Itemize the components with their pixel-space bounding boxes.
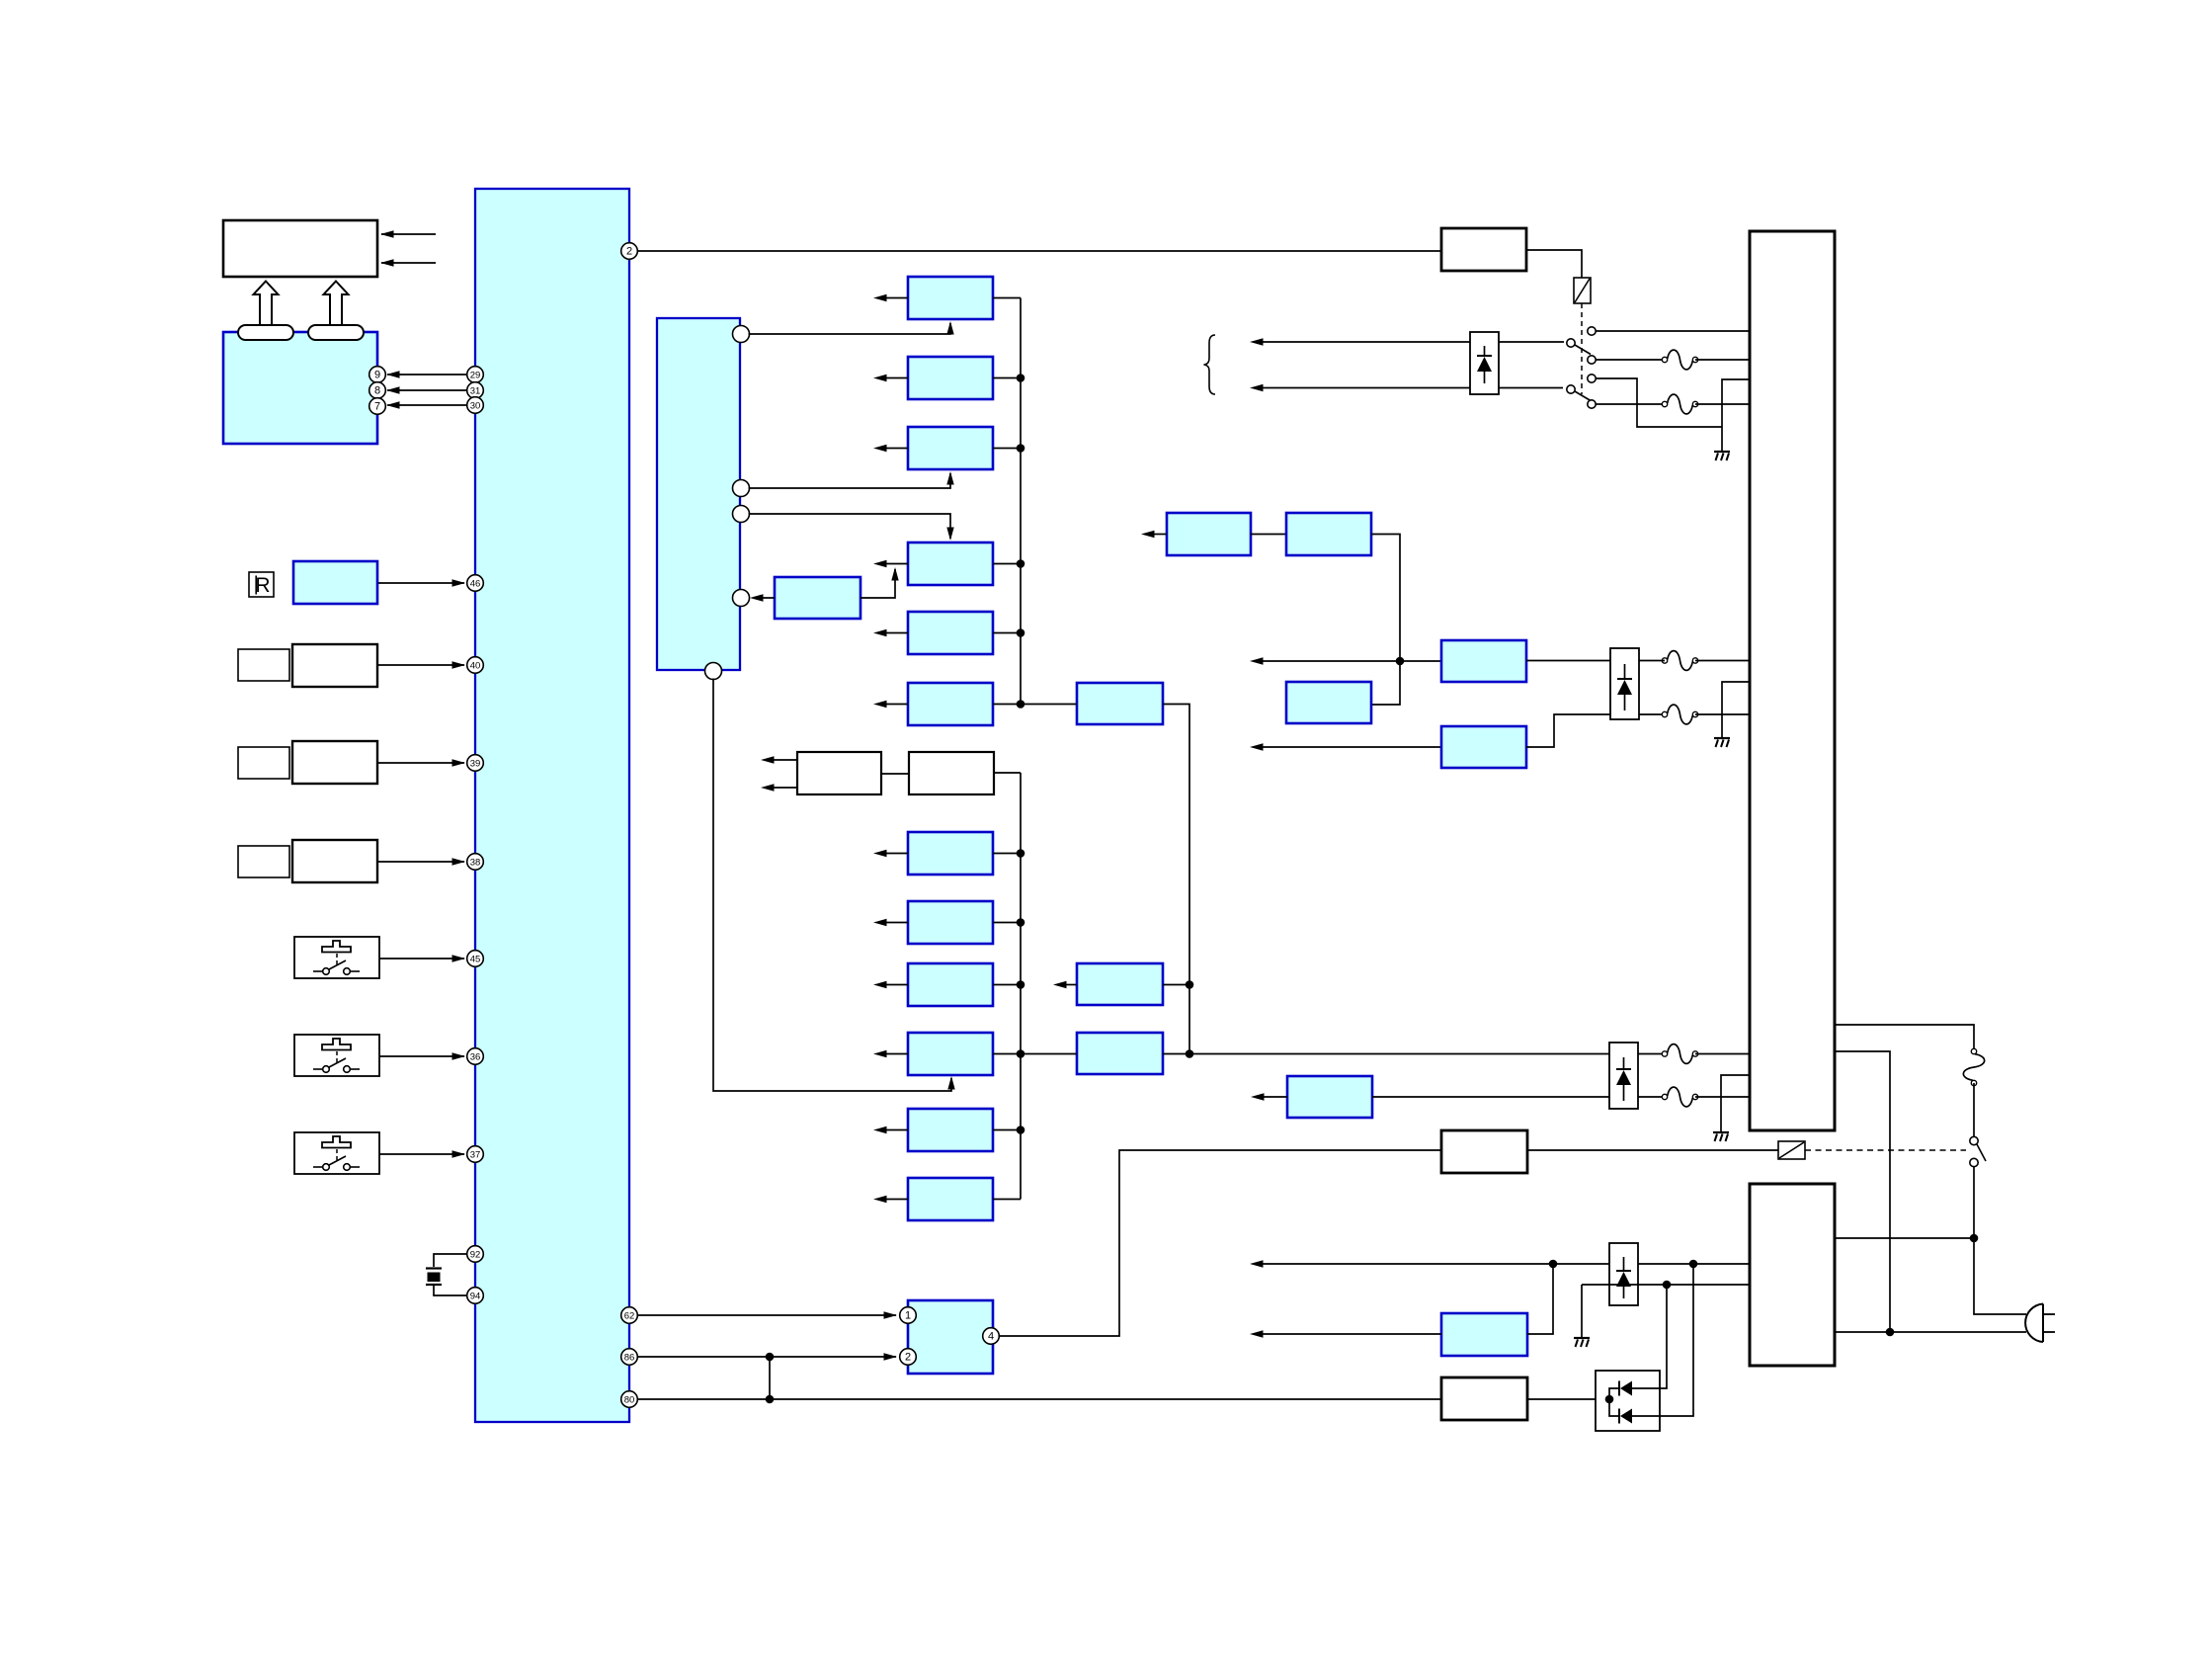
block: white box pair right (amp): [909, 752, 994, 794]
svg-text:1: 1: [905, 1309, 911, 1321]
pin 80: [621, 1391, 638, 1408]
arrow out of power out 6: [873, 701, 908, 708]
wire 86 to 80 link: [769, 1357, 771, 1399]
wire to pin36: [379, 1052, 465, 1059]
block: B4 cyan box: [1287, 1076, 1372, 1118]
svg-text:4: 4: [988, 1330, 994, 1342]
block: R pair left cyan: [1167, 513, 1251, 555]
wire reset output: [860, 567, 899, 598]
wire junction to plug top: [1974, 1238, 2026, 1314]
pin 4: [983, 1328, 1000, 1345]
wire power out 2 to bus: [993, 377, 1021, 379]
pin 31: [467, 382, 484, 399]
diode D1: [1617, 664, 1632, 710]
junction at bus y382.5: [1017, 374, 1025, 382]
wire pin4 to relay box: [999, 1150, 1441, 1336]
block: regulator power out 8 (cyan): [908, 901, 993, 944]
block: R2b cyan box: [1441, 726, 1526, 768]
wire D1 out bottom to F4: [1639, 713, 1665, 715]
ground C: [1713, 1132, 1729, 1141]
wire SW2 bottom to fuse F2: [1597, 403, 1666, 405]
wire rail to R2a: [1250, 657, 1441, 664]
svg-text:30: 30: [470, 400, 481, 411]
AC plug P1: [2025, 1304, 2055, 1343]
arrow B4 out: [1251, 1093, 1287, 1100]
IC U2 sub block (tall cyan): [657, 318, 740, 670]
block: small white box 1: [238, 649, 289, 681]
switch SW2 contact top: [1588, 375, 1596, 382]
block: regulator power out 6 (cyan): [908, 683, 993, 725]
switch S1 box: [294, 937, 379, 978]
wire F2 to transformer: [1695, 403, 1750, 405]
switch SW1 pole circle: [1567, 339, 1575, 347]
arrow audio out 2: [761, 784, 797, 791]
transformer T1 (tall white box): [1750, 231, 1835, 1130]
wire power out 6 to bus: [993, 704, 1021, 706]
wire R2b to rectifier D1: [1526, 714, 1610, 747]
wire port E to box11: [713, 679, 955, 1092]
junction at bus y933.5: [1017, 918, 1025, 927]
IR receiver symbol: [249, 572, 274, 597]
arrow B2 out: [1053, 981, 1077, 988]
wire degauss to relay: [1526, 250, 1582, 278]
relay RY2: [1778, 1141, 1805, 1159]
block: regulator power out 1 (cyan): [908, 277, 993, 319]
switch S2 box: [294, 1035, 379, 1076]
block: jack white box 2: [292, 741, 377, 784]
block: power supply white box: [1750, 1184, 1835, 1366]
arrow out of power out 2: [873, 375, 908, 381]
wire ground branch to PSU: [1582, 1284, 1750, 1286]
junction at bus y570.5: [1017, 559, 1025, 568]
junction plug line: [1886, 1328, 1895, 1337]
junction bus-B1: [1017, 700, 1025, 709]
wire box12 to bus corner: [993, 1199, 1021, 1201]
svg-text:46: 46: [470, 578, 481, 589]
block: regulator power out 12 (cyan): [908, 1178, 993, 1220]
arrow out of power out 7: [873, 850, 908, 857]
svg-text:2: 2: [626, 245, 632, 257]
port circle A: [733, 326, 750, 343]
svg-text:40: 40: [470, 660, 481, 671]
block: display/jack white box: [223, 220, 377, 277]
pin 8: [369, 382, 386, 399]
wire power out 7 to bus: [993, 853, 1021, 855]
wire PSU out2 to plug: [1835, 1331, 2026, 1333]
wire box1 to bus corner: [993, 297, 1021, 299]
port circle D: [733, 590, 750, 607]
block: B3 cyan box: [1077, 1033, 1163, 1074]
wire transformer to plug line: [1835, 1051, 1890, 1332]
block: small white box 3: [238, 846, 289, 877]
relay RY1 (thermal): [1574, 278, 1591, 303]
wire pin62 to pin1: [638, 1311, 898, 1318]
wire into display box lower: [380, 259, 436, 266]
diode D4: [1477, 346, 1492, 383]
svg-text:7: 7: [374, 400, 380, 412]
pin 2 standby: [900, 1349, 917, 1366]
wire D6 up: [1632, 1264, 1693, 1416]
arrow R pair out: [1141, 531, 1167, 538]
wire IR to pin46: [378, 579, 465, 586]
arrow out of power out 9: [873, 981, 908, 988]
wire relay drive to relay RY2: [1527, 1149, 1778, 1151]
wire port C to box4: [749, 514, 954, 541]
block: reset cyan box: [775, 577, 860, 619]
switch SW1 contact top: [1588, 327, 1596, 335]
bus vertical segment A: [1020, 298, 1022, 705]
wire F3 to transformer: [1695, 660, 1750, 662]
wire F6 to transformer: [1695, 1096, 1750, 1098]
block: regulator power out 7 (cyan): [908, 832, 993, 875]
wire power out 11 to bus: [993, 1129, 1021, 1131]
wire B2 to vertical: [1163, 984, 1189, 986]
svg-text:36: 36: [470, 1051, 481, 1062]
power switch SW3 blade: [1977, 1144, 1986, 1161]
svg-text:37: 37: [470, 1149, 481, 1160]
fuse F6: [1662, 1087, 1697, 1107]
svg-text:8: 8: [374, 384, 380, 396]
port circle E (bottom): [705, 663, 722, 680]
rectifier D4 box: [1470, 332, 1499, 394]
block: regulator power out 11 (cyan): [908, 1109, 993, 1151]
junction D3 lower: [1663, 1281, 1672, 1290]
wire SW2 top to ground line: [1597, 378, 1723, 427]
diode pack box: [1596, 1371, 1660, 1431]
arrow out of power out 8: [873, 919, 908, 926]
wire to pin37: [379, 1150, 465, 1157]
wire port A to box1: [749, 321, 954, 335]
wire AC select lower: [1250, 384, 1563, 391]
wire power out 5 to bus: [993, 632, 1021, 634]
ground B: [1714, 738, 1730, 747]
wire power out 4 to bus: [993, 563, 1021, 565]
block: B1 cyan box: [1077, 683, 1163, 724]
junction at bus y640.5: [1017, 628, 1025, 637]
wire B1 to vertical: [1163, 705, 1189, 1054]
wire PSU out1: [1835, 1237, 1974, 1239]
pin 40: [467, 657, 484, 674]
ground stub B: [1722, 682, 1750, 737]
pin 1: [900, 1307, 917, 1324]
wire power out 10 to bus: [993, 1053, 1021, 1055]
switch S3 box: [294, 1132, 379, 1174]
arrow out of power out 5: [873, 629, 908, 636]
ground A: [1714, 452, 1730, 460]
fuse F3: [1662, 651, 1697, 671]
wire port B to box3: [749, 471, 954, 488]
wire pin29 to pin9: [386, 371, 467, 377]
port circle C: [733, 506, 750, 523]
svg-text:94: 94: [470, 1291, 481, 1301]
pin 94: [467, 1288, 484, 1304]
rectifier D3 box: [1609, 1243, 1638, 1305]
svg-text:38: 38: [470, 857, 481, 868]
wire AC select upper: [1250, 338, 1564, 345]
wire standby feedback up: [1527, 1264, 1553, 1334]
junction at bus y1143.5: [1017, 1126, 1025, 1134]
block: jack white box 3: [292, 840, 377, 882]
curly brace: [1204, 335, 1216, 394]
wire to ground D: [1581, 1285, 1583, 1337]
wire B3 to rectifier D2: [1163, 1053, 1609, 1055]
block: degauss posistor white box: [1441, 228, 1526, 271]
fuse F7 vertical: [1963, 1048, 1984, 1085]
wire pin2 to degauss box: [638, 250, 1442, 252]
switch SW1 blade: [1575, 345, 1591, 355]
block: regulator power out 5 (cyan): [908, 612, 993, 654]
block: line filter white box: [1441, 1377, 1527, 1420]
pin 7: [369, 398, 386, 415]
block: relay drive white box: [1441, 1130, 1527, 1173]
switch SW2 contact bottom: [1588, 400, 1596, 408]
wire to pin40: [378, 661, 465, 668]
junction standby rail: [1549, 1260, 1558, 1269]
wire D2 out top to F5: [1638, 1053, 1665, 1055]
wire reset to port D: [750, 594, 775, 601]
dashed relay RY2 link: [1805, 1149, 1966, 1151]
pin 62: [621, 1307, 638, 1324]
wire filter to diode pack: [1527, 1398, 1609, 1400]
wire transformer to vertical fuse: [1835, 1025, 1974, 1051]
block: L2 cyan box: [1286, 682, 1371, 723]
block: IR sensor cyan box: [293, 561, 377, 604]
wire power out 9 to bus: [993, 984, 1021, 986]
diode D5: [1619, 1381, 1632, 1396]
pin 39: [467, 755, 484, 772]
pin 46: [467, 575, 484, 592]
rectifier D1 box: [1610, 648, 1639, 719]
pin 9: [369, 367, 386, 383]
wire R pair link: [1251, 534, 1286, 536]
block: standby converter cyan box: [908, 1300, 993, 1374]
svg-text:29: 29: [470, 370, 481, 380]
wire R pair to junction: [1371, 535, 1400, 706]
block: regulator power out 4 (cyan): [908, 542, 993, 585]
ground stub A: [1722, 379, 1750, 451]
junction B3-vertical: [1186, 1049, 1194, 1058]
block: standby feedback cyan box: [1441, 1313, 1527, 1356]
junction bus-B3: [1017, 1049, 1025, 1058]
wire rail to R2b: [1250, 743, 1441, 750]
arrow standby feedback out: [1250, 1330, 1441, 1337]
block: jack white box 1: [292, 644, 377, 687]
block: key/LED cyan box: [223, 332, 377, 444]
fuse F4: [1662, 705, 1697, 724]
wire R2a to rectifier D1: [1526, 660, 1610, 662]
wire SW1 bottom to fuse F1: [1597, 359, 1666, 361]
junction D3 out: [1689, 1260, 1698, 1269]
power switch SW3 contact top: [1970, 1136, 1978, 1144]
pin 29: [467, 367, 484, 383]
switch SW2 blade: [1575, 391, 1591, 401]
wire to pin39: [378, 759, 465, 766]
rectifier D2 box: [1609, 1043, 1638, 1109]
wire rail through rectifier D3 to PSU: [1553, 1263, 1750, 1265]
svg-text:80: 80: [624, 1394, 635, 1405]
pin 36: [467, 1048, 484, 1065]
wire to diode D6: [1609, 1399, 1618, 1416]
pin 38: [467, 854, 484, 871]
switch SW2 pole circle: [1567, 385, 1575, 393]
wire crystal to pin94: [434, 1286, 467, 1295]
block arrow up left: [254, 282, 279, 326]
diode D6: [1619, 1409, 1632, 1424]
wire B4 to rectifier D2: [1372, 1096, 1609, 1098]
junction at bus y453.5: [1017, 444, 1025, 453]
svg-text:62: 62: [624, 1310, 635, 1321]
wire D1 out top to F3: [1639, 660, 1665, 662]
arrow out of power out 11: [873, 1127, 908, 1133]
diode D3: [1616, 1257, 1631, 1298]
junction PSU-switch: [1970, 1234, 1979, 1243]
junction B2-vertical: [1186, 980, 1194, 989]
bus vertical segment B: [1020, 773, 1022, 1200]
diode D2: [1616, 1057, 1631, 1101]
wire F1 to transformer: [1695, 359, 1750, 361]
wire to diode D5: [1609, 1388, 1618, 1399]
svg-text:45: 45: [470, 954, 481, 964]
junction 86-80: [766, 1353, 775, 1362]
svg-text:31: 31: [470, 385, 481, 396]
wire F4 to transformer: [1695, 713, 1750, 715]
power switch SW3 contact bottom: [1970, 1158, 1978, 1166]
wire to pin45: [379, 955, 465, 961]
junction at bus y863.5: [1017, 849, 1025, 858]
svg-text:9: 9: [374, 369, 380, 380]
block: regulator power out 9 (cyan): [908, 963, 993, 1006]
wire pin30 to pin7: [386, 401, 467, 408]
pin 37: [467, 1146, 484, 1163]
wire F5 to transformer: [1695, 1053, 1750, 1055]
port circle B: [733, 480, 750, 497]
block: regulator power out 3 (cyan): [908, 427, 993, 469]
svg-text:92: 92: [470, 1249, 481, 1260]
block: B2 cyan box: [1077, 963, 1163, 1005]
arrow out of power out 4: [873, 560, 908, 567]
arrow out of power out 10: [873, 1050, 908, 1057]
connector tab left: [238, 325, 293, 340]
wire bus to B3: [1021, 1053, 1077, 1055]
arrow out of power out 12: [873, 1196, 908, 1203]
wire SW3 to junction: [1973, 1167, 1975, 1238]
wire pin92 to crystal: [434, 1254, 467, 1267]
pin 86: [621, 1349, 638, 1366]
block arrow up right: [324, 282, 349, 326]
svg-text:2: 2: [905, 1351, 911, 1363]
svg-text:39: 39: [470, 758, 481, 769]
svg-text:R: R: [255, 574, 270, 597]
wire D5 up: [1632, 1285, 1667, 1388]
block: R pair right cyan: [1286, 513, 1371, 555]
wire amp to bus: [994, 772, 1021, 774]
svg-text:86: 86: [624, 1352, 635, 1363]
arrow audio out 1: [761, 756, 797, 763]
junction diode pack: [1605, 1395, 1614, 1404]
block: small white box 2: [238, 747, 289, 779]
switch SW1 contact bottom: [1588, 356, 1596, 364]
IC U1 main system control (large cyan block): [475, 189, 629, 1422]
pin 2: [621, 243, 638, 260]
wire SW1 top to transformer: [1597, 330, 1751, 332]
junction x1417: [1396, 657, 1405, 666]
wire standby rail upper: [1250, 1260, 1553, 1267]
pin 45: [467, 951, 484, 967]
fuse F2: [1662, 394, 1697, 414]
wire to pin38: [378, 858, 465, 865]
block: white box pair left (audio out): [797, 752, 881, 794]
connector tab right: [308, 325, 364, 340]
wire F7 to power switch: [1973, 1083, 1975, 1136]
fuse F5: [1662, 1044, 1697, 1064]
block: regulator power out 2 (cyan): [908, 357, 993, 399]
block: R2a cyan box: [1441, 640, 1526, 682]
wire between white pair: [881, 773, 909, 775]
arrow out of power out 3: [873, 445, 908, 452]
fuse F1: [1662, 350, 1697, 370]
crystal X1: [426, 1269, 442, 1286]
wire D2 out bottom to F6: [1638, 1096, 1665, 1098]
junction at bus y996.5: [1017, 980, 1025, 989]
ground stub C: [1721, 1075, 1750, 1131]
wire pin80 rail: [638, 1398, 1442, 1400]
dashed relay link: [1581, 303, 1583, 394]
wire pin86 to pin2b: [638, 1353, 898, 1360]
junction 80 rail: [766, 1395, 775, 1404]
pin 92: [467, 1246, 484, 1263]
wire power out 8 to bus: [993, 922, 1021, 924]
wire into display box upper: [380, 230, 436, 237]
wire bus to B1: [1021, 704, 1077, 706]
ground D: [1574, 1338, 1590, 1347]
wire pin31 to pin8: [386, 386, 467, 393]
pin 30: [467, 397, 484, 414]
wire power out 3 to bus: [993, 448, 1021, 450]
arrow out of power out 1: [873, 294, 908, 301]
block: regulator power out 10 (cyan): [908, 1033, 993, 1075]
